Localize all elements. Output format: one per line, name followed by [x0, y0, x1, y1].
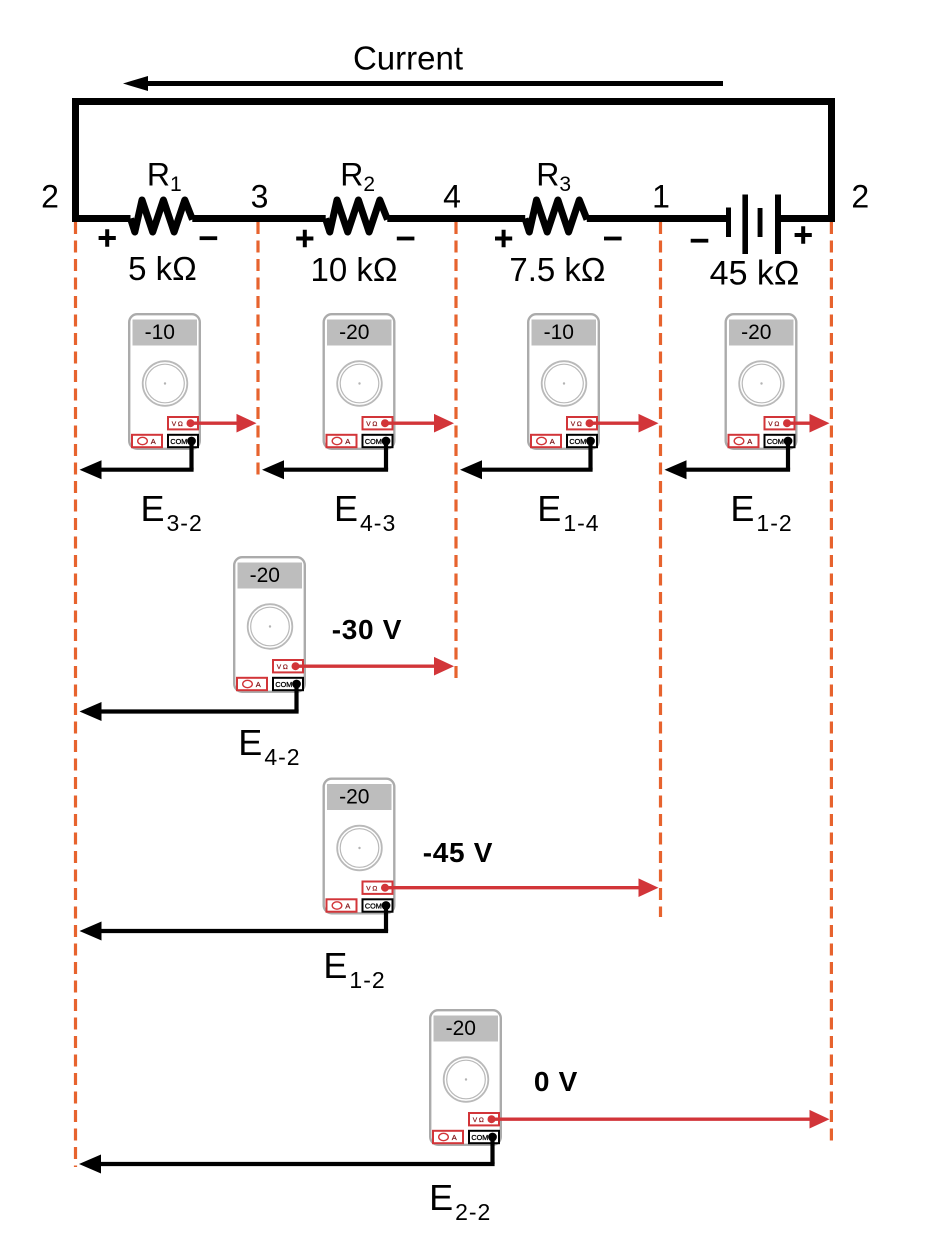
svg-text:7.5 kΩ: 7.5 kΩ	[509, 251, 605, 288]
M5 red V lead wire	[296, 657, 455, 676]
svg-text:10 kΩ: 10 kΩ	[310, 251, 397, 288]
svg-text:-10: -10	[544, 321, 574, 344]
multimeter M2 reading -20	[324, 314, 395, 449]
svg-text:E4-2: E4-2	[238, 722, 300, 770]
wire left vertical (node 2)	[72, 98, 79, 222]
svg-text:-20: -20	[339, 321, 369, 344]
R1 polarity +	[99, 229, 116, 247]
svg-text:-20: -20	[446, 1017, 476, 1040]
battery polarity -	[691, 239, 709, 243]
M2 red V lead wire	[385, 414, 454, 433]
dashed node line 4	[454, 222, 457, 681]
multimeter M5 reading -20	[234, 557, 305, 692]
svg-text:3: 3	[251, 179, 269, 215]
multimeter M6 reading -20	[324, 779, 395, 914]
multimeter M3 reading -10	[528, 314, 599, 449]
svg-text:1: 1	[652, 179, 670, 215]
svg-text:-20: -20	[741, 321, 771, 344]
svg-text:E2-2: E2-2	[429, 1177, 491, 1225]
svg-text:-20: -20	[250, 564, 280, 587]
svg-text:R1: R1	[147, 157, 182, 197]
resistor R2	[326, 200, 388, 232]
svg-text:-30 V: -30 V	[332, 614, 402, 645]
dashed node line 3	[256, 222, 259, 479]
svg-text:E1-2: E1-2	[323, 945, 385, 993]
svg-text:5 kΩ: 5 kΩ	[128, 250, 197, 287]
svg-text:-10: -10	[145, 321, 175, 344]
M4 red V lead wire	[787, 414, 829, 433]
resistor R1	[131, 200, 193, 232]
svg-text:R3: R3	[536, 157, 571, 197]
wire battery to node 2	[781, 215, 835, 222]
battery polarity +	[795, 226, 812, 244]
wire R2 to R3 (node 4)	[387, 215, 525, 222]
multimeter M1 reading -10	[129, 314, 200, 449]
svg-text:E3-2: E3-2	[141, 488, 203, 536]
svg-text:0 V: 0 V	[534, 1066, 578, 1097]
wire R3 to battery (node 1)	[587, 215, 726, 222]
R3 polarity +	[495, 230, 512, 248]
M3 red V lead wire	[590, 414, 659, 433]
wire top loop	[72, 98, 835, 105]
svg-text:2: 2	[851, 179, 869, 215]
svg-text:-45 V: -45 V	[423, 837, 493, 868]
M1 red V lead wire	[191, 414, 257, 433]
wire node2 to R1	[72, 215, 131, 222]
dashed node line 1	[659, 222, 662, 917]
M1 black COM lead wire	[80, 441, 194, 479]
M7 black COM lead wire	[79, 1137, 495, 1174]
dashed node line 2 right	[830, 222, 833, 1141]
resistor R3	[525, 200, 587, 232]
M6 black COM lead wire	[80, 906, 389, 941]
M5 black COM lead wire	[80, 684, 299, 721]
svg-text:4: 4	[443, 179, 461, 215]
current direction arrow	[123, 76, 723, 91]
wire R1 to R2 (node 3)	[192, 215, 325, 222]
M4 black COM lead wire	[665, 441, 791, 479]
svg-text:45 kΩ: 45 kΩ	[710, 255, 800, 293]
R1 polarity -	[200, 236, 218, 240]
multimeter M4 reading -20	[726, 314, 797, 449]
battery 45 kOhm	[726, 195, 781, 255]
M2 black COM lead wire	[262, 441, 388, 479]
svg-text:E1-4: E1-4	[537, 488, 599, 536]
R3 polarity -	[604, 237, 622, 241]
M7 red V lead wire	[492, 1110, 830, 1129]
multimeter M7 reading -20	[430, 1010, 501, 1145]
R2 polarity -	[397, 237, 415, 241]
svg-text:E1-2: E1-2	[730, 488, 792, 536]
M3 black COM lead wire	[460, 441, 593, 479]
R2 polarity +	[296, 230, 313, 248]
svg-text:-20: -20	[339, 786, 369, 809]
svg-text:2: 2	[41, 179, 59, 215]
wire right vertical (node 2)	[828, 98, 835, 222]
svg-text:R2: R2	[340, 157, 375, 197]
svg-text:E4-3: E4-3	[334, 488, 396, 536]
M6 red V lead wire	[385, 878, 658, 897]
svg-text:Current: Current	[353, 40, 463, 77]
dashed node line 2 left	[74, 222, 77, 1167]
